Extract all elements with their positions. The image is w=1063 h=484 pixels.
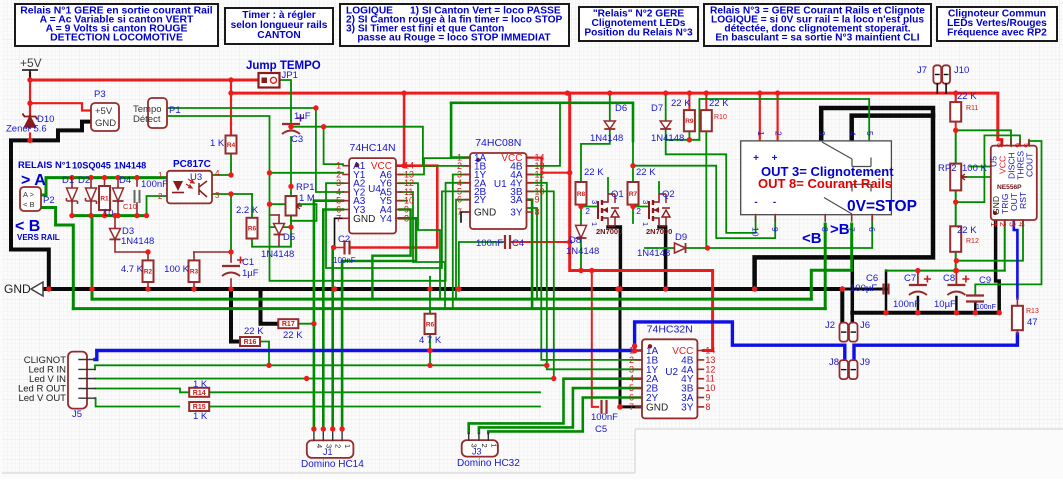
svg-text:1 M: 1 M <box>299 193 315 204</box>
wire R6 2.2K to U3 pin3 line <box>251 194 253 218</box>
resistor R16 22K <box>240 337 260 346</box>
wire R7 bottom gate Q2 row <box>632 205 634 223</box>
wire C1 top <box>230 252 232 262</box>
wire R5 column <box>429 277 431 314</box>
svg-text:GND: GND <box>95 118 116 129</box>
wire U1 VCC to thick red <box>527 158 570 173</box>
svg-text:3: 3 <box>817 131 827 136</box>
transistor Q1 2N7000 <box>597 201 599 219</box>
svg-text:22 K: 22 K <box>244 326 264 337</box>
capacitor C2 100nF <box>345 241 350 255</box>
svg-text:1N4148: 1N4148 <box>261 249 294 260</box>
relay box N3 <box>741 141 892 215</box>
wire RP1 wiper loop <box>291 204 317 221</box>
note box 4: Relais N.2 <box>579 7 698 41</box>
wire U1 GND pin7 stub <box>461 212 470 222</box>
svg-text:+5V: +5V <box>95 106 113 117</box>
svg-text:3: 3 <box>590 200 599 204</box>
svg-text:1 K: 1 K <box>210 138 225 149</box>
svg-text:R15: R15 <box>193 404 206 411</box>
wire blue NE556 OUT pin3 to R13 <box>1014 220 1018 298</box>
wire +5V to P3 <box>30 103 91 110</box>
jumper JP1 <box>259 73 280 88</box>
svg-text:D6: D6 <box>615 103 627 114</box>
svg-text:> A: > A <box>21 172 46 189</box>
wire NE556 TRIG down to rail <box>1004 220 1006 271</box>
wire Q1 source / U2 GND pin7 column via C5 <box>620 289 642 407</box>
IC U4 74HC14N <box>349 158 396 233</box>
connector P1 Tempo Detect <box>148 98 167 128</box>
zener diode D10 <box>29 115 31 130</box>
svg-text:U1: U1 <box>494 179 507 190</box>
wire C2 left stub <box>335 247 344 249</box>
wire U2 pin2 feed from U1 <box>541 175 642 360</box>
svg-text:2N7000: 2N7000 <box>596 227 622 236</box>
svg-text:100nF: 100nF <box>476 238 503 249</box>
wire green bracket over U1 <box>451 103 633 141</box>
wire GND relay-U right side <box>755 108 933 289</box>
wire GND bus to R17 <box>261 289 279 324</box>
svg-text:8: 8 <box>535 207 540 217</box>
svg-text:2.2 K: 2.2 K <box>236 205 259 216</box>
resistor R14 1K <box>189 388 209 397</box>
wire C7 stubs <box>917 271 919 284</box>
svg-text:GND: GND <box>4 282 31 296</box>
wire J3 pin1 col to U2 pin4 <box>469 379 642 433</box>
wire Tempo Detect P1 pin2 row to vertical A <box>166 116 270 227</box>
svg-text:D5: D5 <box>283 232 295 243</box>
wire relay pin7 to green bus 1 <box>811 224 851 299</box>
svg-text:1: 1 <box>641 222 650 226</box>
wire R8 bottom gate Q1 row <box>580 205 582 224</box>
svg-text:+: + <box>772 153 778 164</box>
wire Led V IN row <box>95 378 554 380</box>
capacitor C6 100uF <box>884 284 889 295</box>
svg-text:10SQ045: 10SQ045 <box>72 161 111 171</box>
wire D7 node row1 to relay pin10 <box>666 140 756 233</box>
wire C8 stubs <box>955 271 957 284</box>
wire +5V to R4 column <box>230 80 232 136</box>
wire diode bottom rail <box>72 214 147 217</box>
wire Q2 drain stub <box>658 182 660 193</box>
capacitor C3 1uF <box>282 123 300 125</box>
wire A-line from P2 to U3 pin1 <box>41 178 167 195</box>
svg-text:J9: J9 <box>860 357 870 368</box>
svg-text:R13: R13 <box>1026 308 1039 315</box>
wire U4 pin2 row <box>270 172 344 174</box>
svg-text:100 K: 100 K <box>164 264 189 275</box>
wire U3 pin3 node down <box>212 194 231 252</box>
resistor R5 4.7K <box>425 314 436 334</box>
svg-text:C10: C10 <box>123 202 137 211</box>
svg-text:8: 8 <box>820 227 830 232</box>
svg-text:3A: 3A <box>510 195 523 206</box>
svg-text:22 K: 22 K <box>957 91 977 102</box>
svg-text:1: 1 <box>590 222 599 226</box>
wire +5V bus upper <box>30 79 258 82</box>
wire RP1 bottom big U loop to U1 pin4 <box>270 183 471 281</box>
note box 3: LOGIQUE <box>340 4 569 46</box>
wire relay pin8 to green bus 2 <box>824 224 827 309</box>
capacitor C7 100nF <box>909 284 927 286</box>
resistor R12 22K <box>950 226 961 252</box>
svg-text:2: 2 <box>334 444 343 448</box>
wire NE556 RST down to R12 node <box>956 220 1023 261</box>
svg-text:U3: U3 <box>190 172 202 183</box>
svg-text:4.7 K: 4.7 K <box>121 264 144 275</box>
svg-text:C7: C7 <box>904 273 916 284</box>
svg-text:1: 1 <box>989 222 999 227</box>
wire Tempo Detect P1 pin1 row to U4 pin4 <box>166 108 343 192</box>
wire D9 row to relay pin6 <box>656 217 872 248</box>
svg-text:R9: R9 <box>685 118 694 125</box>
capacitor C5 100nF <box>602 400 607 414</box>
svg-text:8: 8 <box>995 143 1005 148</box>
svg-text:Domino HC32: Domino HC32 <box>457 458 520 469</box>
svg-text:D8: D8 <box>569 235 581 246</box>
svg-text:10: 10 <box>103 208 114 219</box>
diode D7 1N4148 <box>665 119 667 131</box>
diode D8 1N4148 <box>580 223 582 240</box>
wire U3 pin4 to R4 bottom <box>212 154 231 176</box>
wire U1 pin3 down to green bus2 <box>453 175 470 309</box>
wire R9 top <box>688 93 690 110</box>
resistor R17 22K <box>278 319 298 328</box>
resistor R15 1K <box>189 402 209 411</box>
note box 2: Timer <box>225 8 333 44</box>
svg-text:R11: R11 <box>966 105 978 112</box>
svg-text:R16: R16 <box>244 339 257 346</box>
svg-text:-: - <box>773 197 776 208</box>
wire U3 pin2 down to diode rail <box>147 196 168 216</box>
wire JP1 left <box>231 79 258 81</box>
wire D3 branch <box>114 216 116 227</box>
svg-text:C9: C9 <box>979 275 991 286</box>
wire relay pin1 pin2 to +5V <box>759 93 761 141</box>
svg-text:D4: D4 <box>119 175 131 186</box>
svg-text:6: 6 <box>457 195 462 205</box>
note box 1: Relais N.1 <box>15 4 218 46</box>
svg-text:3: 3 <box>215 191 220 200</box>
wire U1 pin11 down to Led R IN row <box>527 183 547 365</box>
svg-text:2: 2 <box>998 222 1008 227</box>
power +5V <box>22 70 38 80</box>
wire Q1 drain stub <box>607 178 609 193</box>
svg-text:4: 4 <box>1017 222 1027 227</box>
jumpers J7 J10 <box>933 65 941 83</box>
svg-text:4: 4 <box>848 131 858 136</box>
svg-text:J6: J6 <box>860 320 870 331</box>
wire green bus 1 <box>92 298 811 301</box>
svg-text:4 7 K: 4 7 K <box>419 335 442 346</box>
wire U1 pin6 down to green bus1 <box>456 200 470 299</box>
svg-text:R8: R8 <box>577 191 586 198</box>
wire R2 top <box>147 252 149 260</box>
svg-text:100 K: 100 K <box>962 163 987 174</box>
wire R6 bottom D5 RP1 loop <box>252 216 291 247</box>
svg-text:R7: R7 <box>629 191 638 198</box>
wire +5V thick drop to U2 VCC <box>570 93 713 350</box>
svg-text:7: 7 <box>629 402 634 412</box>
diode D9 1N4148 <box>675 243 686 253</box>
connector J3 Domino HC32 <box>462 440 498 457</box>
svg-text:R3: R3 <box>190 269 199 276</box>
svg-text:D9: D9 <box>675 232 687 243</box>
wire U4 pin11 link <box>399 192 445 309</box>
svg-text:3: 3 <box>641 200 650 204</box>
svg-text:1 K: 1 K <box>193 379 208 390</box>
svg-text:1: 1 <box>343 444 352 448</box>
svg-text:VERS RAIL: VERS RAIL <box>17 233 60 242</box>
svg-text:J3: J3 <box>472 447 482 457</box>
svg-text:2: 2 <box>636 206 641 216</box>
wire U4 pin9 loop <box>372 210 410 300</box>
svg-text:RP2: RP2 <box>938 163 956 174</box>
svg-text:OUT 8= Courant Rails: OUT 8= Courant Rails <box>758 176 892 191</box>
note box 6: Clignoteur <box>937 7 1057 41</box>
wire NE556 THRES link <box>956 135 1020 202</box>
svg-text:J10: J10 <box>954 65 969 76</box>
svg-text:1N4148: 1N4148 <box>637 248 670 259</box>
wire U4 pin8 to J1 col4 <box>342 218 416 429</box>
wire B-line from P2 down to green bus 2 <box>41 208 74 309</box>
capacitor C1 1uF <box>222 265 240 267</box>
svg-text:Domino HC14: Domino HC14 <box>301 459 364 470</box>
capacitor C10 100nF <box>135 190 140 203</box>
potentiometer RP2 100K <box>950 164 961 191</box>
wire green bus 2 <box>73 307 825 310</box>
svg-text:RST: RST <box>1018 191 1028 209</box>
wire C9 bottom stub <box>974 303 977 313</box>
svg-text:7: 7 <box>336 213 341 223</box>
svg-text:9: 9 <box>770 227 780 232</box>
resistor R13 47 <box>1012 306 1023 330</box>
svg-text:1N4148: 1N4148 <box>121 236 154 247</box>
wire U2 pin1 stub <box>635 349 642 351</box>
svg-text:U4: U4 <box>368 184 381 195</box>
svg-text:47: 47 <box>1027 317 1038 328</box>
wire R2 R3 C1 to GND bus <box>147 282 149 289</box>
svg-text:C2: C2 <box>338 234 350 245</box>
wire NE556 GND pin1 down to bus <box>996 220 1000 313</box>
diode D6 1N4148 <box>609 119 611 131</box>
wire +5V main bus <box>231 93 1002 146</box>
svg-text:3Y: 3Y <box>510 208 523 219</box>
svg-text:1: 1 <box>158 171 163 180</box>
svg-text:Q2: Q2 <box>662 189 675 200</box>
potentiometer RP1 1M <box>286 196 297 216</box>
capacitor C9 100nF <box>966 296 984 302</box>
svg-text:5: 5 <box>865 131 875 136</box>
note box 5: Relais N.3 <box>704 4 931 46</box>
wire Q2 source to GND bus <box>659 227 666 289</box>
wire U1 pin9 down thick to green bus2 <box>527 200 533 309</box>
wire U4 GND pin7 to C2 <box>335 218 344 247</box>
wire J3 pin3 col to U2 pin6 <box>488 398 642 434</box>
svg-text:6: 6 <box>867 227 877 232</box>
svg-text:NE556P: NE556P <box>997 184 1022 191</box>
svg-text:R10: R10 <box>714 114 727 121</box>
svg-text:6: 6 <box>1013 143 1023 148</box>
svg-text:22 K: 22 K <box>283 330 303 341</box>
transistor Q2 2N7000 <box>648 201 650 219</box>
wire NE556 DISCH to R11 node <box>956 130 1011 145</box>
svg-text:1: 1 <box>756 131 766 136</box>
wire U4 pin5 to J1 col1 <box>314 201 343 429</box>
svg-text:+: + <box>753 153 759 164</box>
capacitor C4 100nF <box>505 235 510 249</box>
svg-text:< B: < B <box>23 200 34 209</box>
svg-text:R12: R12 <box>966 238 979 245</box>
svg-text:2: 2 <box>158 192 163 201</box>
svg-text:74HC08N: 74HC08N <box>475 137 521 149</box>
svg-text:5: 5 <box>1022 143 1032 148</box>
wire R11 bottom to node <box>955 122 957 131</box>
svg-text:D1: D1 <box>62 175 74 186</box>
svg-text:JP1: JP1 <box>282 70 298 81</box>
wire RP1 wiper row left <box>270 203 297 205</box>
svg-text:Zener 5.6: Zener 5.6 <box>6 124 47 135</box>
wire C4 red side <box>510 241 570 243</box>
svg-text:RP1: RP1 <box>296 182 314 193</box>
wire D8 bottom to red node <box>580 240 582 271</box>
svg-text:U5: U5 <box>989 156 999 167</box>
svg-text:<B: <B <box>802 230 822 247</box>
wire R10 top <box>705 93 707 110</box>
connector J1 Domino HC14 <box>307 440 354 458</box>
svg-text:DETECTION LOCOMOTIVE: DETECTION LOCOMOTIVE <box>50 33 183 44</box>
wire C9 top stub <box>974 284 976 295</box>
svg-text:Position du Relais N°3: Position du Relais N°3 <box>584 27 693 38</box>
wire C6 rail <box>842 288 886 291</box>
svg-text:100nF: 100nF <box>591 412 618 423</box>
wire R11 top <box>955 93 957 102</box>
svg-text:COUT: COUT <box>1025 152 1035 177</box>
junction dots <box>27 77 32 82</box>
IC U2 74HC32N <box>642 339 697 418</box>
wire U4 pin12 link <box>399 183 440 299</box>
wire Led V OUT row with R15 <box>95 398 179 406</box>
diode D4 1N4148 <box>117 186 119 203</box>
svg-text:GND: GND <box>353 214 375 225</box>
svg-text:Led V OUT: Led V OUT <box>18 393 66 404</box>
wire +5V column left <box>29 73 31 116</box>
svg-text:1µF: 1µF <box>294 111 311 122</box>
svg-text:22 K: 22 K <box>584 167 604 178</box>
wire R12 bottom to caps rail <box>955 252 957 271</box>
svg-text:J7: J7 <box>917 65 927 76</box>
wire GND staircase from P3 GND to lower left <box>11 122 91 289</box>
wire caps green rail <box>886 270 1005 272</box>
svg-text:R6: R6 <box>426 321 435 328</box>
svg-text:100nF: 100nF <box>141 179 168 190</box>
svg-text:GND: GND <box>646 402 668 413</box>
wire U4 pin13 to U1 area <box>399 158 451 174</box>
svg-text:100nF: 100nF <box>333 256 356 265</box>
svg-text:Détect: Détect <box>133 114 161 125</box>
svg-text:passe au Rouge = loco STOP IMM: passe au Rouge = loco STOP IMMEDIAT <box>346 33 551 44</box>
wire GND bus to R16 <box>231 289 240 342</box>
wire U1 pin12 to U2 pin2 column <box>527 174 542 176</box>
svg-text:PC817C: PC817C <box>173 159 211 170</box>
svg-text:D7: D7 <box>651 103 663 114</box>
svg-text:P2: P2 <box>43 195 55 206</box>
svg-text:1: 1 <box>489 444 498 448</box>
svg-text:2: 2 <box>774 131 784 136</box>
svg-text:10: 10 <box>751 227 761 237</box>
wire D7 top green column from +5V bus <box>665 93 667 119</box>
wire U4 pin6 to J1 col2 <box>323 210 343 430</box>
resistor R4 1K <box>226 136 237 154</box>
svg-text:2Y: 2Y <box>474 195 487 206</box>
svg-text:22 K: 22 K <box>709 98 729 109</box>
svg-text:R4: R4 <box>227 142 236 149</box>
svg-text:1 K: 1 K <box>193 411 208 422</box>
wire node to relay pin5 line <box>699 99 869 141</box>
wire U1 pin10 down to Led V IN row <box>527 191 554 378</box>
wire U1 pin13 out <box>527 103 561 166</box>
resistor R6 2.2K <box>247 218 258 239</box>
svg-text:2N7000: 2N7000 <box>646 227 672 236</box>
svg-text:GND: GND <box>474 208 496 219</box>
wire bracket column to R7 top <box>632 103 634 182</box>
wire R17 right to J1 col <box>298 323 314 325</box>
resistor R11 22K <box>950 102 961 122</box>
resistor R10 22K <box>701 110 712 131</box>
svg-text:1N4148: 1N4148 <box>566 246 599 257</box>
svg-text:100nF: 100nF <box>976 304 996 311</box>
resistor R7 22K <box>628 182 639 205</box>
svg-text:22 K: 22 K <box>671 98 691 109</box>
wire Q1 source to GND bus <box>608 227 620 289</box>
connector J5 <box>68 352 87 409</box>
svg-text:R14: R14 <box>193 390 206 397</box>
svg-text:U2: U2 <box>665 367 678 378</box>
svg-text:C5: C5 <box>595 424 607 435</box>
svg-text:R2: R2 <box>144 269 153 276</box>
svg-text:+5V: +5V <box>20 56 42 70</box>
jumpers J8 J9 <box>840 360 849 379</box>
wire U4 pin10 stub <box>399 200 407 202</box>
resistor R8 22K <box>576 182 587 205</box>
wire R11 node to RP2 <box>955 130 957 163</box>
svg-text:C1: C1 <box>242 257 254 268</box>
svg-text:1N4148: 1N4148 <box>590 133 623 144</box>
svg-text:Q1: Q1 <box>611 189 624 200</box>
resistor R1 10 <box>99 186 110 210</box>
wire +5V drop to U4 VCC <box>403 93 406 166</box>
resistor R3 100K <box>189 260 200 282</box>
svg-text:9: 9 <box>535 195 540 205</box>
svg-text:D2: D2 <box>78 175 90 186</box>
wire D7 bottom R9 node row <box>666 131 700 140</box>
svg-text:RELAIS N°1: RELAIS N°1 <box>18 159 71 170</box>
svg-text:R17: R17 <box>282 321 295 328</box>
svg-text:C8: C8 <box>943 273 955 284</box>
wire U4 VCC loop to C2 <box>351 166 438 248</box>
svg-text:74HC14N: 74HC14N <box>349 142 395 154</box>
svg-text:P3: P3 <box>94 89 106 100</box>
wire U1 pin8 down to green bus1 <box>527 208 538 299</box>
wire GND relay pin4 stub <box>852 116 933 141</box>
svg-text:74HC32N: 74HC32N <box>647 323 693 335</box>
IC U1 74HC08N <box>470 153 527 229</box>
svg-text:100nF: 100nF <box>893 299 920 310</box>
connector P2 relay 1 <box>20 187 41 211</box>
svg-text:Y4: Y4 <box>380 214 393 225</box>
wire D5 bottom stub <box>278 237 280 247</box>
wire RP2 wiper loop <box>961 167 991 178</box>
